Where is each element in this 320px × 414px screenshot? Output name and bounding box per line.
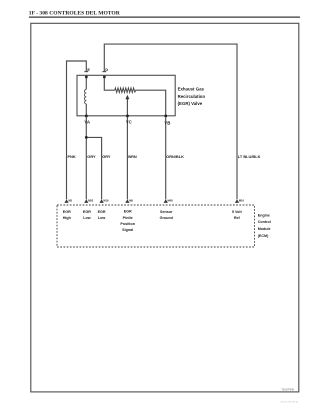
svg-text:Sensor: Sensor xyxy=(160,210,173,214)
svg-text:Ground: Ground xyxy=(160,216,174,220)
svg-text:Low: Low xyxy=(83,216,91,220)
svg-text:BRN: BRN xyxy=(128,154,137,159)
svg-text:5 Volt: 5 Volt xyxy=(232,210,243,214)
svg-text:Recirculation: Recirculation xyxy=(178,94,206,99)
svg-text:Module: Module xyxy=(258,227,271,231)
svg-text:GRY: GRY xyxy=(102,154,111,159)
svg-text:1F - 308 CONTROLES DEL MOTOR: 1F - 308 CONTROLES DEL MOTOR xyxy=(29,11,121,17)
svg-text:Low: Low xyxy=(98,216,106,220)
svg-text:M9: M9 xyxy=(129,199,133,203)
svg-text:(ECM): (ECM) xyxy=(258,234,269,238)
svg-text:Exhaust Gas: Exhaust Gas xyxy=(178,87,205,92)
svg-text:Engine: Engine xyxy=(258,213,270,217)
svg-text:daewoo.manuals.pg: daewoo.manuals.pg xyxy=(281,400,299,403)
svg-text:M48: M48 xyxy=(168,199,174,203)
svg-text:(EGR) Valve: (EGR) Valve xyxy=(178,101,203,106)
svg-text:EGR: EGR xyxy=(98,210,106,214)
svg-text:Signal: Signal xyxy=(122,228,133,232)
svg-text:M52: M52 xyxy=(88,199,94,203)
svg-text:M16: M16 xyxy=(239,199,245,203)
svg-text:Position: Position xyxy=(120,222,135,226)
svg-text:YB: YB xyxy=(164,120,170,125)
svg-text:E: E xyxy=(87,68,90,72)
svg-text:EGR: EGR xyxy=(83,210,91,214)
svg-text:Pintle: Pintle xyxy=(123,216,133,220)
svg-text:PNK: PNK xyxy=(68,154,76,159)
svg-text:D: D xyxy=(105,68,108,72)
svg-text:ORN/BLK: ORN/BLK xyxy=(166,154,184,159)
svg-text:EGR: EGR xyxy=(124,210,132,214)
svg-text:M19: M19 xyxy=(103,199,109,203)
svg-text:GRY: GRY xyxy=(87,154,96,159)
svg-text:Control: Control xyxy=(258,220,271,224)
svg-text:LT BLU/BLK: LT BLU/BLK xyxy=(238,154,261,159)
svg-text:YA: YA xyxy=(84,120,91,125)
svg-text:T3A37F046: T3A37F046 xyxy=(281,388,294,392)
svg-text:Ref: Ref xyxy=(234,216,241,220)
svg-text:EGR: EGR xyxy=(63,210,71,214)
svg-text:YC: YC xyxy=(126,120,133,125)
svg-text:High: High xyxy=(63,216,72,220)
svg-text:M3: M3 xyxy=(68,199,72,203)
